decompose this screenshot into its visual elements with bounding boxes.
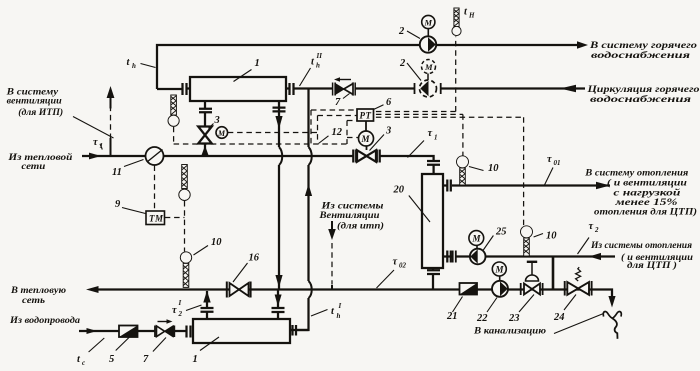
svg-text:М: М (424, 62, 433, 72)
valve 3 on tau1 line (motor valve) (357, 150, 376, 162)
svg-text:h: h (132, 62, 136, 70)
svg-text:02: 02 (399, 262, 407, 270)
callout 23 (519, 295, 534, 313)
drain funnel (to sewer) (603, 312, 621, 319)
flange HX-I right (290, 325, 309, 336)
callout 5 (116, 337, 130, 351)
svg-text:τ: τ (547, 154, 552, 165)
svg-text:21: 21 (446, 311, 458, 322)
svg-text:h: h (337, 312, 341, 320)
wire: riser t_h^I from stage I to stage II (with hops) (290, 89, 309, 331)
hop of downpipe over supply line (279, 147, 282, 165)
signal: dashed box 12 verticals (311, 110, 347, 144)
arrow tau_01 (596, 182, 610, 189)
thermometer t_H (hot water temp) (452, 8, 461, 36)
svg-text:В канализацию: В канализацию (473, 326, 546, 337)
signal: flow meter 11 to TM box (154, 166, 156, 211)
flange HX20 right bottom port (447, 251, 451, 263)
flange HX20 top (427, 161, 440, 165)
arrow down: from ventilation system (ITP) (331, 221, 333, 289)
flange HX-II left (157, 83, 190, 95)
motor (M) dashed circle (427, 74, 429, 81)
svg-text:τ: τ (393, 257, 398, 268)
svg-text:I: I (338, 302, 342, 310)
svg-text:25: 25 (495, 227, 507, 238)
flange HX-I top left port (tau2^I) (201, 308, 214, 312)
arrow up tau2^I (203, 291, 210, 303)
svg-text:7: 7 (143, 354, 149, 365)
svg-text:01: 01 (554, 159, 561, 167)
flow meter 11 on supply line (146, 147, 164, 165)
valve 23 (make-up control valve with actuator) (521, 283, 543, 295)
svg-text:16: 16 (249, 253, 260, 264)
flange HX-II right (286, 83, 296, 95)
svg-text:I: I (178, 299, 182, 307)
wire: tau_2 line from heating system to pump 25 (443, 255, 615, 257)
svg-text:t: t (331, 306, 335, 317)
wire: HX stage II right port / circulation line (296, 87, 585, 89)
actuator of valve 23 (diaphragm + stem + T top) (526, 275, 539, 281)
motor M of valve 3 (216, 127, 228, 139)
svg-text:22: 22 (476, 313, 488, 324)
svg-text:Из водопровода: Из водопровода (9, 315, 80, 326)
flange HX-II bottom left port (199, 109, 212, 113)
flange HX-I top right port (272, 308, 285, 312)
heat exchanger 1 (stage I, bottom) (193, 319, 290, 343)
wire: tau_01 line to heating system (443, 184, 610, 186)
svg-text:1: 1 (434, 134, 438, 142)
callout tau_2 (578, 238, 590, 255)
callout 10 (tau_01) (469, 167, 484, 171)
svg-text:t: t (77, 354, 81, 365)
check valve 7 (top, circulation) (333, 83, 356, 96)
callout 6 (374, 105, 384, 110)
callout 1 (stage I) (200, 337, 219, 351)
check valve 7 (cold water, points right) (155, 326, 174, 338)
arrow up: to ventilation system (ITP) (110, 97, 112, 156)
flange HX-I left (187, 326, 191, 338)
pump 2 (hot water supply pump) (420, 36, 436, 52)
svg-text:РТ: РТ (360, 111, 372, 121)
wire: junction drop from tau_2 line to return line (552, 257, 555, 290)
callout 21 (453, 297, 463, 313)
callout to vent text (73, 117, 114, 139)
callout t_h (141, 64, 156, 68)
svg-text:7: 7 (335, 97, 341, 108)
signal: PT box to thermometer tau_2 (376, 117, 524, 225)
arrow down into stage I heater (275, 295, 282, 307)
hop over supply line (309, 147, 312, 165)
callout 7 (bottom) (153, 338, 166, 352)
wire: tau2^I branch from stage I up to return line (206, 291, 208, 319)
svg-text:t: t (311, 57, 315, 68)
svg-text:τ: τ (428, 128, 433, 139)
thermometer on supply line (TM sensor) (179, 165, 190, 201)
svg-text:2: 2 (398, 26, 405, 37)
thermometer 10 on tau_2 line (521, 226, 533, 256)
callout t_h^II (300, 68, 311, 86)
filter 21 on return line (460, 283, 478, 295)
svg-text:5: 5 (109, 354, 114, 365)
wire: branch up through valve 3 into stage II left bottom port (204, 101, 206, 156)
svg-text:t: t (464, 7, 468, 18)
callout 16 (233, 263, 248, 282)
callout 10 (tau_2) (534, 234, 543, 238)
svg-text:6: 6 (386, 97, 392, 108)
svg-text:τ: τ (172, 305, 177, 316)
pump 25 (heating circulation pump) (453, 251, 456, 263)
signal: long control line lower (y144) (174, 143, 347, 145)
callout 3 (valve under HX) (209, 124, 214, 129)
signal: long control line upper from valve3 motor (228, 132, 318, 134)
flanges valve 3 tau1 (353, 150, 379, 163)
svg-text:М: М (424, 18, 433, 28)
pump 2 (circulation pump, dashed) (415, 83, 441, 94)
svg-text:водоснабжения: водоснабжения (590, 94, 691, 105)
signal: thermometer at stage II to control line (173, 127, 175, 144)
svg-text:М: М (472, 234, 482, 244)
svg-text:24: 24 (553, 312, 565, 323)
wire: DHW top loop line t_h (157, 45, 578, 89)
arrow up on riser (305, 184, 312, 196)
thermometer at stage II inlet (left) (168, 95, 179, 126)
valve 24 (safety valve with spring) (565, 281, 592, 296)
wire: HX20 bottom to return (432, 268, 434, 289)
hop over return line (309, 281, 312, 298)
svg-text:сеть: сеть (22, 295, 46, 306)
motor M pump 2 (427, 29, 429, 37)
thermometer 10 on tau_01 line (457, 156, 469, 185)
callout tau_02 (377, 270, 395, 288)
svg-text:1: 1 (193, 354, 198, 365)
svg-text:М: М (217, 129, 226, 138)
svg-text:(для итп): (для итп) (337, 221, 384, 232)
svg-text:2: 2 (178, 310, 183, 318)
svg-text:3: 3 (385, 126, 391, 137)
svg-text:c: c (82, 359, 85, 367)
svg-text:3: 3 (214, 115, 220, 126)
arrow above check valve 7 (points left) (339, 79, 351, 81)
callout t_c (89, 338, 105, 352)
arrow circulation (points left) (560, 85, 576, 93)
regulator PT box 6 (365, 121, 367, 131)
svg-text:отопления для ЦТП): отопления для ЦТП) (594, 207, 697, 218)
heat exchanger 20 (heating system, vertical) (422, 174, 443, 268)
callout 20 (409, 196, 430, 223)
svg-text:М: М (495, 265, 505, 275)
svg-text:23: 23 (508, 313, 520, 324)
pump 22 (make-up pump) (492, 281, 508, 297)
svg-text:2: 2 (594, 226, 599, 234)
callout 9 (122, 208, 146, 214)
svg-text:t: t (127, 57, 131, 68)
svg-text:h: h (316, 62, 320, 70)
svg-text:20: 20 (393, 185, 405, 196)
callout 1 (stage II) (234, 70, 252, 82)
svg-text:11: 11 (112, 167, 122, 178)
svg-text:9: 9 (115, 199, 121, 210)
signal: PT box to t_H sensor (376, 36, 457, 112)
svg-text:вентиляции: вентиляции (7, 96, 63, 107)
arrow down to drain (608, 296, 615, 308)
callout tau2^I (186, 305, 202, 311)
filter 5 on cold water line (119, 326, 138, 338)
callout t_h^I (311, 310, 328, 317)
heat exchanger 1 (stage II, top) (190, 77, 286, 101)
callout tau_01 (544, 168, 553, 187)
wire: vent supply riser (dashed, to ITP ventilation) (110, 106, 112, 139)
callout 25 (483, 236, 493, 251)
signal: dashed rows into PT box (311, 110, 358, 138)
svg-text:10: 10 (546, 231, 557, 242)
svg-text:10: 10 (211, 237, 222, 248)
svg-text:10: 10 (488, 163, 499, 174)
regulator TM box 9 (146, 211, 165, 225)
callout 12 (319, 136, 329, 144)
motor M pump 22 (499, 276, 501, 280)
svg-text:1: 1 (255, 58, 260, 69)
callout 24 (564, 295, 576, 311)
arrow cold water inlet (87, 328, 98, 334)
svg-text:водоснабжения: водоснабжения (591, 50, 690, 61)
callout 7 (top) (343, 94, 350, 99)
arrow down on downpipe (above return junction) (275, 275, 282, 288)
wire: cold water line (79, 330, 186, 332)
svg-text:τ: τ (589, 221, 594, 232)
svg-text:II: II (316, 52, 323, 60)
flange HX20 bottom (427, 270, 440, 274)
motor M pump 25 (476, 245, 478, 249)
arrow up into valve 3 (201, 146, 208, 156)
signal: PT box to thermometer tau_01 (376, 114, 463, 155)
callout 11 (124, 160, 144, 167)
callout tau1 (at HX20 bend) (408, 141, 425, 158)
motor M above tau1 valve (366, 146, 368, 150)
arrow to heat network (left) (86, 286, 99, 293)
wire: downpipe from stage II right port to return and stage I (278, 101, 279, 319)
svg-text:Вентиляции: Вентиляции (318, 210, 380, 221)
callout 2 (pump top) (407, 31, 420, 39)
wire: return line to heat network (97, 290, 612, 298)
svg-text:12: 12 (332, 127, 343, 138)
valve 3 (motor valve under stage II HX) (198, 127, 212, 144)
thermometer 10 on return line (TM sensor) (180, 252, 191, 288)
callout 22 (487, 298, 497, 313)
svg-text:Из системы отопления: Из системы отопления (590, 240, 692, 251)
arrow tau_2 (points left) (589, 253, 601, 260)
spring of valve 24 (576, 267, 581, 281)
flange HX-II bottom right port (273, 108, 286, 112)
svg-text:(для ИТП): (для ИТП) (18, 107, 63, 118)
svg-text:ТМ: ТМ (149, 214, 164, 224)
svg-text:Н: Н (468, 12, 475, 20)
arrow to hot water system (577, 41, 588, 49)
svg-text:М: М (361, 134, 371, 144)
callout tau1 (at inlet) (100, 144, 102, 150)
svg-text:τ: τ (93, 137, 98, 148)
svg-text:для ЦТП ): для ЦТП ) (627, 260, 677, 271)
svg-text:1: 1 (100, 142, 104, 150)
valve 16 on return line (227, 282, 251, 298)
callout 2 (circulation pump) (407, 63, 421, 81)
arrow supply inlet (89, 153, 101, 160)
signal: TM box to thermometers (165, 201, 185, 252)
callout 3 (tau1 valve) (370, 135, 385, 151)
arrow down on downpipe (upper) (275, 116, 282, 129)
arrow above check valve 7 (points right) (158, 321, 168, 323)
flange HX20 right top port (447, 180, 451, 192)
svg-text:2: 2 (399, 58, 406, 69)
svg-text:( и вентиляции: ( и вентиляции (607, 177, 688, 188)
callout 10 (left) (194, 246, 209, 256)
wire: vent return (dashed, from ventilation system) (331, 243, 333, 285)
svg-text:сети: сети (21, 161, 46, 172)
wire: supply line from heat network (82, 156, 434, 174)
callout to sewer text (554, 314, 604, 334)
